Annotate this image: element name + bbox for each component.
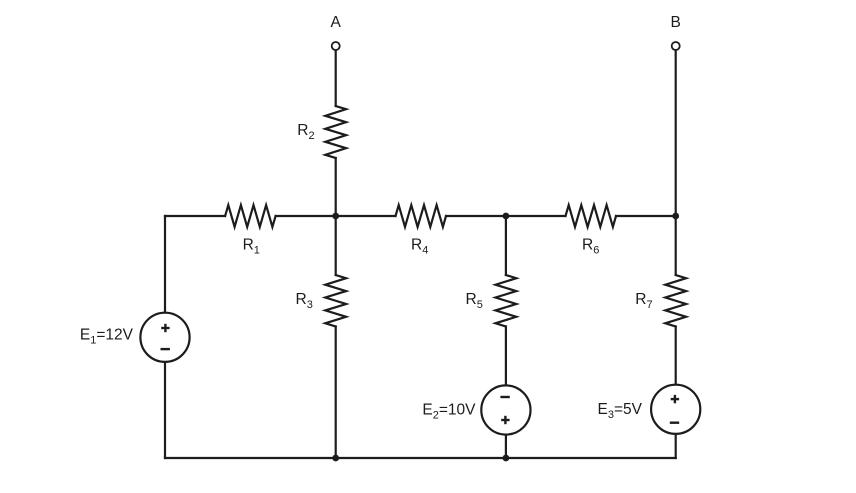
svg-text:A: A [331, 14, 342, 31]
svg-text:B: B [671, 14, 681, 31]
